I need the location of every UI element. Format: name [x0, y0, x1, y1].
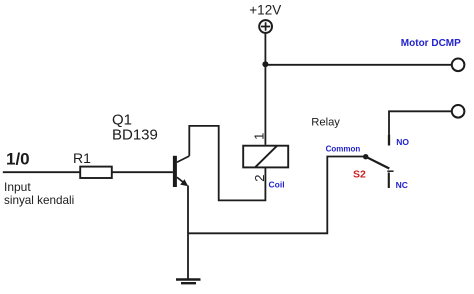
svg-text:1: 1 [252, 133, 267, 140]
svg-text:Input: Input [4, 180, 31, 194]
svg-text:NO: NO [396, 137, 409, 147]
svg-text:R1: R1 [73, 150, 91, 166]
svg-text:NC: NC [396, 180, 408, 190]
svg-text:Coil: Coil [269, 180, 285, 190]
svg-text:S2: S2 [353, 169, 366, 181]
svg-text:BD139: BD139 [112, 127, 158, 144]
svg-text:sinyal kendali: sinyal kendali [4, 194, 74, 207]
svg-text:Motor DCMP: Motor DCMP [401, 38, 461, 49]
svg-text:+12V: +12V [249, 3, 281, 18]
svg-text:Relay: Relay [311, 117, 340, 129]
svg-text:Common: Common [326, 145, 361, 154]
svg-text:2: 2 [252, 175, 267, 182]
svg-text:1/0: 1/0 [6, 150, 30, 169]
